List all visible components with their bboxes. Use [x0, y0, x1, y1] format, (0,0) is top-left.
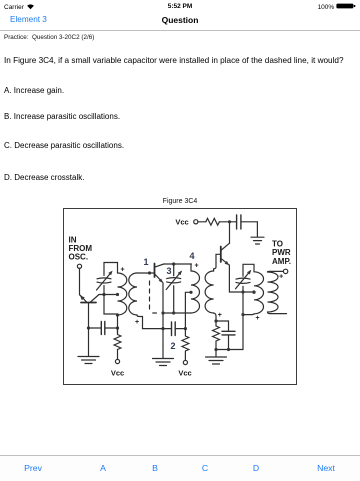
transistor Q2 [155, 264, 164, 283]
junction center tap T3 [252, 291, 255, 294]
junction [116, 293, 119, 296]
wire center tap T2 [185, 292, 191, 328]
transformer T1 secondary [129, 273, 137, 315]
label IN FROM OSC [69, 236, 93, 262]
svg-text:+: + [255, 315, 259, 322]
wire bottom row to C4 [143, 328, 172, 330]
wire [198, 221, 206, 223]
capacitor C7 [237, 215, 258, 229]
ground G2 [153, 345, 174, 366]
junction [241, 313, 244, 316]
label 2 [170, 341, 175, 351]
junction [172, 311, 175, 314]
output terminal [283, 269, 287, 273]
junction [172, 262, 175, 265]
transformer T3 left winding [243, 264, 264, 314]
svg-text:PWR: PWR [272, 248, 291, 257]
junction [116, 326, 119, 329]
svg-text:Vcc: Vcc [111, 369, 124, 378]
terminal Vcc3 [194, 220, 198, 224]
label 3 [166, 266, 171, 276]
label 1 [143, 257, 148, 267]
svg-text:1: 1 [143, 257, 148, 267]
wire collector Q3 [229, 222, 231, 243]
junction [116, 313, 119, 316]
resistor R4 [206, 218, 220, 225]
label + T1 secondary [135, 319, 139, 326]
label Vcc1 [111, 369, 124, 378]
ground G3 [206, 350, 227, 365]
input terminal [77, 264, 81, 268]
svg-text:TO: TO [272, 240, 283, 249]
wire emitter row [163, 312, 191, 314]
wire collector Q2 [164, 263, 192, 265]
wire T1 secondary bottom [137, 315, 143, 329]
junction [228, 220, 231, 223]
transistor Q1 [80, 295, 99, 329]
ground G1 [78, 328, 99, 364]
svg-text:4: 4 [189, 251, 194, 261]
junction [252, 290, 255, 293]
label + T2 left [195, 262, 199, 269]
figure frame [64, 209, 297, 385]
svg-text:3: 3 [166, 266, 171, 276]
capacitor C5 [216, 321, 235, 350]
svg-text:AMP.: AMP. [272, 257, 291, 266]
variable capacitor C3 [166, 264, 182, 313]
wire emitter Q2 [162, 283, 164, 313]
wire bottom right row [216, 349, 243, 351]
svg-text:+: + [218, 312, 222, 319]
variable capacitor C1 [97, 263, 113, 295]
wire tank top [104, 263, 118, 274]
svg-text:+: + [195, 262, 199, 269]
dashed line neutralization path [150, 281, 157, 313]
terminal Vcc1 [115, 359, 119, 363]
label Vcc2 [178, 369, 191, 378]
junction [102, 293, 105, 296]
svg-text:+: + [135, 319, 139, 326]
junction [214, 348, 217, 351]
transformer T2 left winding [191, 264, 200, 313]
junction center tap T2 [189, 291, 192, 294]
capacitor C2 [89, 322, 118, 335]
wire to ground G2 [162, 313, 164, 345]
transformer T1 primary [118, 273, 127, 315]
variable capacitor C6 [236, 264, 252, 349]
junction node base Q2 [148, 271, 151, 274]
svg-text:Vcc: Vcc [175, 218, 188, 227]
svg-text:2: 2 [170, 341, 175, 351]
capacitor C4 [172, 322, 186, 336]
resistor R2 [182, 329, 189, 361]
junction [161, 311, 164, 314]
svg-text:+: + [279, 273, 283, 280]
junction [87, 326, 90, 329]
label + T3 left [255, 315, 259, 322]
wire input [79, 268, 81, 295]
wire collector Q1 [99, 294, 118, 296]
label Vcc top [175, 218, 188, 227]
label + T1 primary [120, 266, 124, 273]
transformer T2 right winding [205, 254, 221, 321]
junction [214, 319, 217, 322]
svg-text:Vcc: Vcc [178, 369, 191, 378]
label + output [279, 273, 283, 280]
label 4 [189, 251, 194, 261]
transistor Q3 [221, 243, 230, 265]
label TO PWR AMP [272, 240, 291, 267]
wire emitter Q3 [229, 265, 254, 292]
wire T1 secondary top / base Q2 [137, 272, 155, 274]
label + T2 right [218, 312, 222, 319]
wire [219, 221, 236, 223]
resistor R3 [213, 321, 220, 350]
junction [161, 327, 164, 330]
resistor R1 [114, 328, 121, 359]
svg-text:+: + [120, 266, 124, 273]
terminal Vcc2 [183, 360, 187, 364]
junction [241, 290, 244, 293]
wire C1 bottom to T1 bottom [104, 295, 118, 315]
junction [227, 348, 230, 351]
svg-text:OSC.: OSC. [69, 253, 89, 262]
junction [184, 327, 187, 330]
wire [117, 315, 119, 333]
ground G4 [251, 222, 264, 244]
transformer T3 right winding [268, 271, 287, 313]
